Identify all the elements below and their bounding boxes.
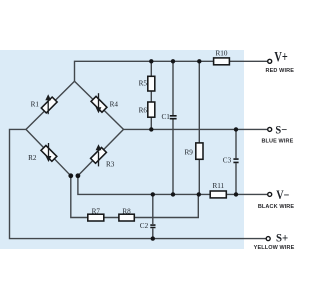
junction top rail at R5 [149,59,153,63]
wire R7-R8 branch [71,176,199,218]
junction bridge bottom right node [76,173,81,178]
terminal V- [268,192,272,196]
svg-text:R4: R4 [110,100,119,108]
junction V- rail at C3 [234,192,238,196]
wire C3 branch [235,129,237,194]
resistor R2 [41,145,57,161]
arrow of R4 (down) [98,93,100,108]
junction top rail at C1 [171,59,175,63]
capacitor C3 [233,159,238,162]
svg-text:V−: V− [276,188,289,202]
resistor R7 [88,214,104,221]
svg-text:S+: S+ [276,230,288,244]
svg-text:R10: R10 [216,49,228,57]
svg-text:R9: R9 [185,149,194,157]
svg-text:BLUE WIRE: BLUE WIRE [261,138,293,144]
arrow of R1 (up) [47,100,49,115]
resistor R4 [91,96,107,112]
wire R5-R6 branch [150,61,152,129]
resistor R8 [119,214,134,221]
wire bridge edge bottom-right [78,129,124,175]
svg-text:R1: R1 [31,100,40,108]
wire bridge edge bottom-left [26,129,71,175]
arrow of R3 (up) [98,152,100,167]
svg-text:RED WIRE: RED WIRE [266,68,295,74]
terminal S- [268,127,272,131]
svg-text:R2: R2 [28,154,37,162]
wire left+bottom S+ rail [10,129,268,238]
junction V- rail at R9/R8 [197,192,201,196]
junction S- rail at R6 [149,127,153,131]
wire top rail V+ [75,61,268,81]
wire C1 branch [172,61,174,194]
wire bridge edge top-left [26,81,75,129]
wire V- rail [78,176,267,195]
resistor R3 [91,147,107,163]
svg-text:R5: R5 [139,80,148,88]
junction top rail at R9 [197,59,201,63]
resistor R9 [196,143,203,159]
svg-text:BLACK WIRE: BLACK WIRE [258,204,295,210]
svg-text:C2: C2 [140,222,149,230]
capacitor C2 [150,225,155,227]
junction bridge bottom left node [68,173,73,178]
svg-text:YELLOW WIRE: YELLOW WIRE [254,245,295,251]
svg-text:R8: R8 [122,207,131,215]
svg-text:R11: R11 [212,182,224,190]
junction V- rail at C1 [171,192,175,196]
svg-text:R7: R7 [92,207,101,215]
svg-text:C3: C3 [223,157,232,165]
arrow of R2 (down) [48,143,50,157]
resistor R11 [210,191,226,198]
wire R9 branch [198,61,200,194]
resistor R5 [148,76,155,91]
capacitor C1 [170,116,177,119]
svg-text:R6: R6 [139,107,148,115]
wire C2 branch [152,194,154,238]
terminal V+ [268,59,272,63]
junction S- rail at C3 [234,127,238,131]
svg-text:C1: C1 [162,113,171,121]
resistor R1 [41,97,57,113]
junction V- rail at C2 [151,192,155,196]
svg-text:R3: R3 [106,160,115,168]
terminal S+ [266,237,270,241]
svg-text:S−: S− [275,123,287,136]
wire bridge edge top-right [75,81,124,129]
junction S+ rail at C2 [151,236,155,240]
wire S- rail [124,128,268,130]
resistor R6 [148,102,155,117]
resistor R10 [214,58,230,65]
svg-text:V+: V+ [274,50,287,66]
